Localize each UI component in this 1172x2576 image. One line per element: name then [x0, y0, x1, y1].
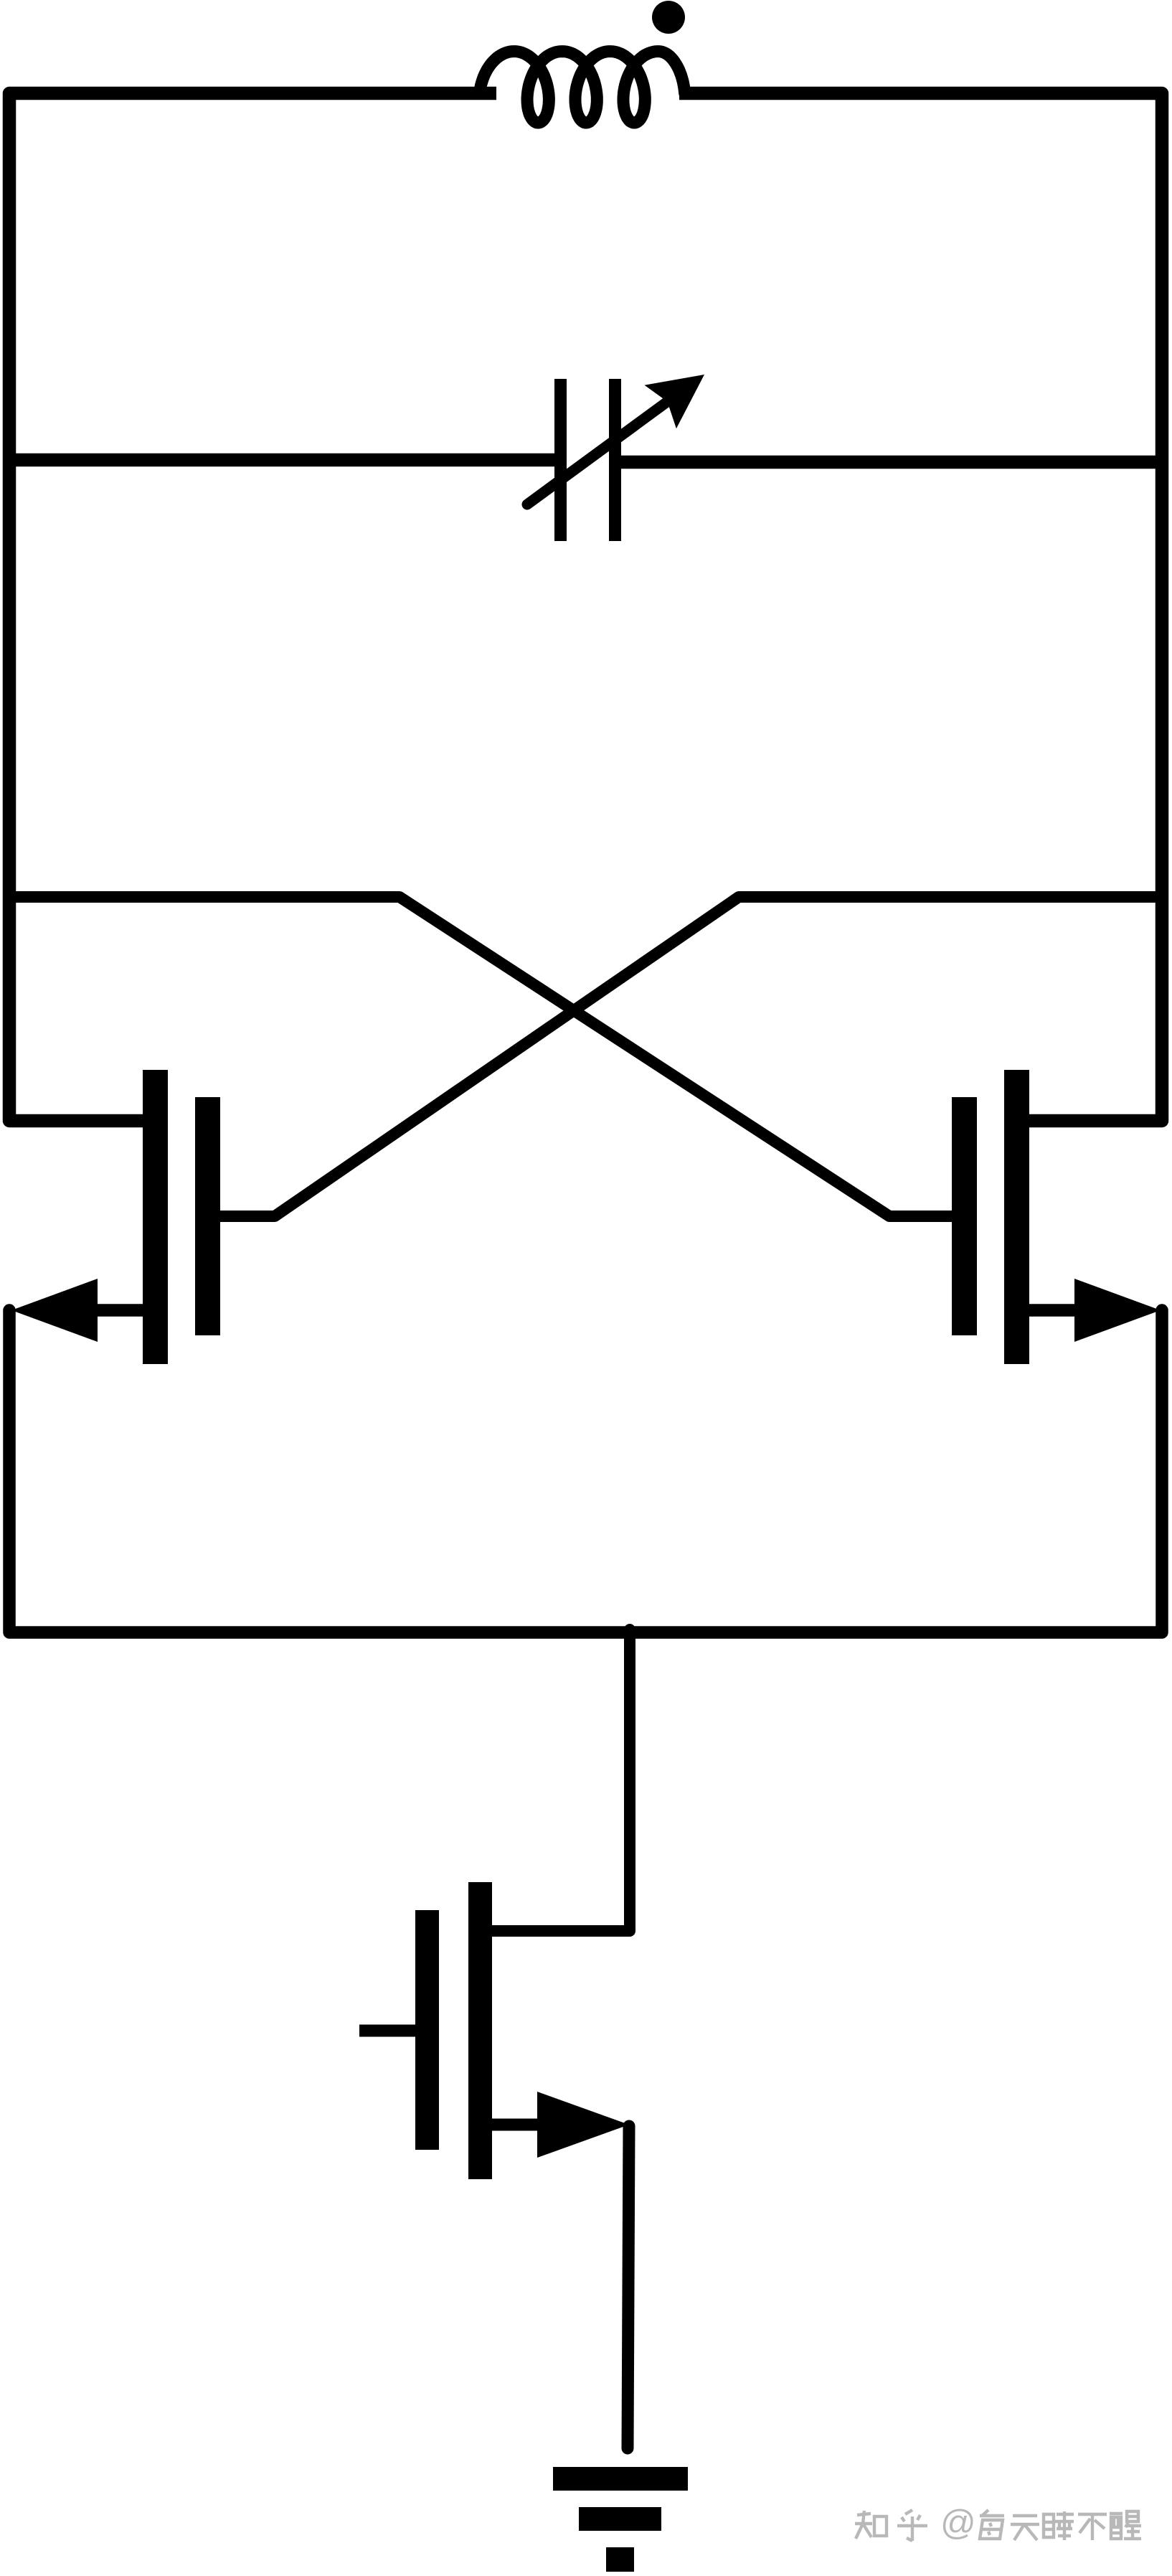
wire varactor row left — [9, 453, 557, 467]
inductor L1 — [481, 52, 685, 123]
wire tail source to ground — [628, 2126, 629, 2448]
wire varactor row right — [620, 456, 1162, 469]
svg-text:@: @ — [940, 2504, 976, 2542]
wire cross-couple: left drain to M2 gate — [9, 897, 961, 1216]
ground — [553, 2467, 688, 2572]
wire source bus — [9, 1310, 1162, 1632]
transistor M2 — [952, 1070, 1161, 1364]
wire cross-couple: right drain to M1 gate — [211, 897, 1162, 1216]
wire top-left rail (VDD left / node A drain feed) — [9, 93, 496, 1121]
watermark 知乎 @每天睡不醒 — [855, 2510, 1141, 2541]
transistor M3 — [359, 1882, 629, 2179]
wire top-right rail (node B drain feed) — [679, 93, 1162, 1121]
transistor M1 — [11, 1070, 220, 1364]
wire tail drain stem — [475, 1630, 630, 1931]
polarity dot — [652, 1, 685, 34]
varactor C1 — [527, 375, 704, 541]
